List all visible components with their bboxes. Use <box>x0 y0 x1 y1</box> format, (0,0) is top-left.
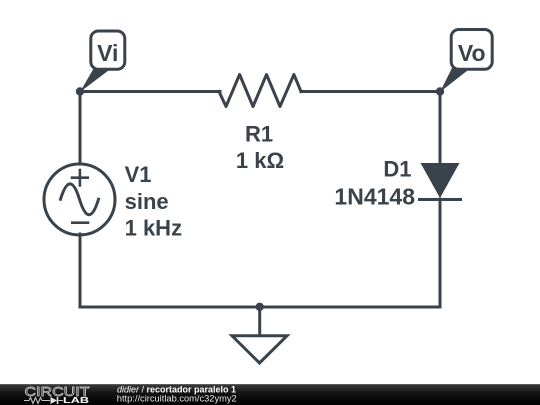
svg-text:1N4148: 1N4148 <box>334 183 415 209</box>
svg-text:V1: V1 <box>125 162 152 187</box>
footer logo wire <box>24 400 63 402</box>
svg-text:D1: D1 <box>383 157 411 182</box>
ground <box>232 336 287 363</box>
footer bar <box>0 384 540 405</box>
wire ground stub <box>258 307 261 337</box>
wire bottom <box>80 306 440 309</box>
svg-text:sine: sine <box>125 189 169 214</box>
diode D1 triangle <box>421 163 460 198</box>
svg-text:Vo: Vo <box>458 40 486 66</box>
svg-text:LAB: LAB <box>63 395 89 405</box>
svg-text:1 kHz: 1 kHz <box>125 215 182 240</box>
node dot Vo <box>436 87 444 95</box>
V1 plus sign <box>72 170 88 185</box>
node Vi callout tail <box>80 67 109 92</box>
node Vo callout box <box>451 30 492 70</box>
wire top left <box>80 90 220 93</box>
resistor R1 <box>219 75 301 107</box>
wire left vertical lower <box>79 234 82 307</box>
wire right vertical upper <box>439 92 442 164</box>
node dot ground junction <box>256 303 264 311</box>
node dot Vi <box>76 87 84 95</box>
wire left vertical upper <box>79 92 82 166</box>
footer logo resistor squiggle <box>29 398 42 404</box>
wire top right <box>301 90 440 93</box>
node Vi callout box <box>91 31 125 69</box>
node Vo callout tail <box>440 67 468 92</box>
svg-text:R1: R1 <box>245 122 273 147</box>
V1 minus sign <box>72 221 88 224</box>
voltage source V1 <box>44 164 115 235</box>
V1 sine wave <box>61 184 99 215</box>
footer logo diode <box>51 397 58 404</box>
diode D1 cathode bar <box>420 198 461 201</box>
svg-text:http://circuitlab.com/c32ymy2: http://circuitlab.com/c32ymy2 <box>117 393 237 403</box>
svg-text:1 kΩ: 1 kΩ <box>236 148 284 173</box>
svg-text:Vi: Vi <box>97 40 118 66</box>
wire right vertical lower <box>439 199 442 307</box>
